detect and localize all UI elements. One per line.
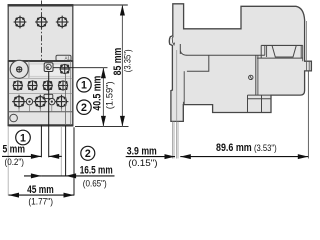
overload relay body (8, 61, 74, 125)
main terminal screw T3 (55, 95, 69, 109)
side view body outline (169, 4, 311, 122)
extension line reset level (40.5mm) (54, 67, 108, 69)
foot inner lines (177, 50, 184, 121)
dimension line 16.5 mm (24, 173, 115, 178)
relay/contactor boundary (180, 51, 264, 71)
dimension line 5 mm (2, 154, 62, 159)
clip beak detail (171, 37, 173, 44)
rear extension line (307, 71, 309, 158)
right extension line (45mm) (73, 127, 75, 195)
svg-text:(0.15"): (0.15") (128, 158, 157, 168)
contactor body (8, 5, 74, 61)
svg-text:(3.35"): (3.35") (122, 49, 132, 72)
label 5 mm (0.2") (3, 143, 26, 167)
test contact circle b (49, 98, 55, 104)
dimension 40.5 mm (92, 68, 115, 127)
relay face panel (29, 64, 70, 76)
contactor rear bottom shelf (257, 45, 303, 58)
svg-text:(0.65"): (0.65") (83, 179, 107, 189)
label 3.9 mm (0.15") (127, 145, 158, 168)
extension line from reset button down (48, 72, 50, 158)
front edge inner line (179, 44, 181, 54)
extension line top (85mm) (74, 4, 128, 6)
svg-text:16.5 mm: 16.5 mm (80, 164, 113, 176)
dimension line 3.9 mm (126, 154, 175, 159)
svg-text:(1.59"): (1.59") (105, 81, 115, 109)
svg-text:89.6 mm: 89.6 mm (216, 142, 252, 154)
aux terminal screw 98 (60, 64, 70, 74)
extension line bottom (85mm/40.5mm) (75, 125, 129, 127)
contactor terminal screw L3 (56, 16, 69, 29)
aux terminal screws row (95 96 97 98) (13, 80, 23, 90)
bottom mounting hole (10, 114, 18, 122)
dimension 89.6 mm (180, 142, 308, 159)
svg-text:(1.77"): (1.77") (28, 197, 53, 207)
main terminal screw T1 (12, 95, 26, 109)
dimension 85 mm (112, 5, 133, 126)
reset button (44, 63, 53, 72)
svg-text:45 mm: 45 mm (27, 184, 54, 196)
contactor terminal screw L1 (14, 16, 27, 29)
rear terminal block (248, 95, 272, 112)
terminal leader ticks (19, 105, 62, 112)
label 16.5 mm (0.65") (80, 164, 113, 188)
circled 1 (dim 5mm) (16, 130, 31, 145)
circled 1 (aux row) (77, 78, 91, 92)
svg-text:(0.2"): (0.2") (5, 157, 25, 167)
centre extension below body (40, 125, 42, 157)
coil terminal tab A1 (56, 55, 71, 61)
side dial screw (249, 75, 253, 79)
grey extension lines (7, 127, 9, 196)
svg-text:A1: A1 (65, 56, 71, 61)
rear tab inner lines (307, 61, 310, 71)
circled 2 (dim 16.5mm) (81, 146, 95, 160)
pole centre line (dash-dot) (41, 1, 43, 126)
svg-text:5 mm: 5 mm (3, 143, 26, 155)
relay row divider lines (9, 61, 72, 125)
svg-text:40.5 mm: 40.5 mm (92, 76, 104, 111)
rear edge parallel line (305, 21, 307, 61)
circled 2 (main row) (77, 100, 91, 114)
svg-text:1: 1 (81, 80, 87, 92)
relay rear inner vertical (255, 55, 257, 95)
tab above main terminal row (44, 94, 53, 98)
contactor terminal screw L2 (35, 16, 48, 29)
svg-text:2: 2 (81, 102, 87, 114)
extension line from screw 98 down (65, 74, 67, 176)
test contact circle a (26, 98, 32, 104)
foot extension lines (173, 122, 178, 159)
current adjustment dial (10, 60, 28, 78)
svg-text:3.9 mm: 3.9 mm (127, 145, 157, 157)
rear inner grey vertical (302, 45, 304, 61)
svg-text:2: 2 (85, 148, 91, 160)
svg-text:(3.53"): (3.53") (254, 143, 277, 153)
main terminal screw T2 (33, 95, 47, 109)
dimension 45 mm (9, 184, 75, 207)
